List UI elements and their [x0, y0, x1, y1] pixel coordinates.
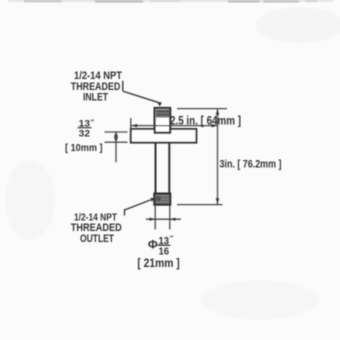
svg-text:3in. [ 76.2mm ]: 3in. [ 76.2mm ] [220, 159, 282, 171]
svg-text:[ 10mm ]: [ 10mm ] [65, 142, 103, 154]
svg-text:32: 32 [79, 128, 90, 138]
svg-text:16: 16 [159, 246, 170, 257]
svg-text:2.5 in. [ 64mm ]: 2.5 in. [ 64mm ] [170, 114, 241, 128]
svg-text:13: 13 [79, 118, 90, 128]
svg-text:[ 21mm ]: [ 21mm ] [137, 258, 179, 270]
svg-text:OUTLET: OUTLET [80, 233, 114, 245]
svg-text:INLET: INLET [83, 92, 108, 104]
svg-text:Φ: Φ [148, 237, 158, 251]
